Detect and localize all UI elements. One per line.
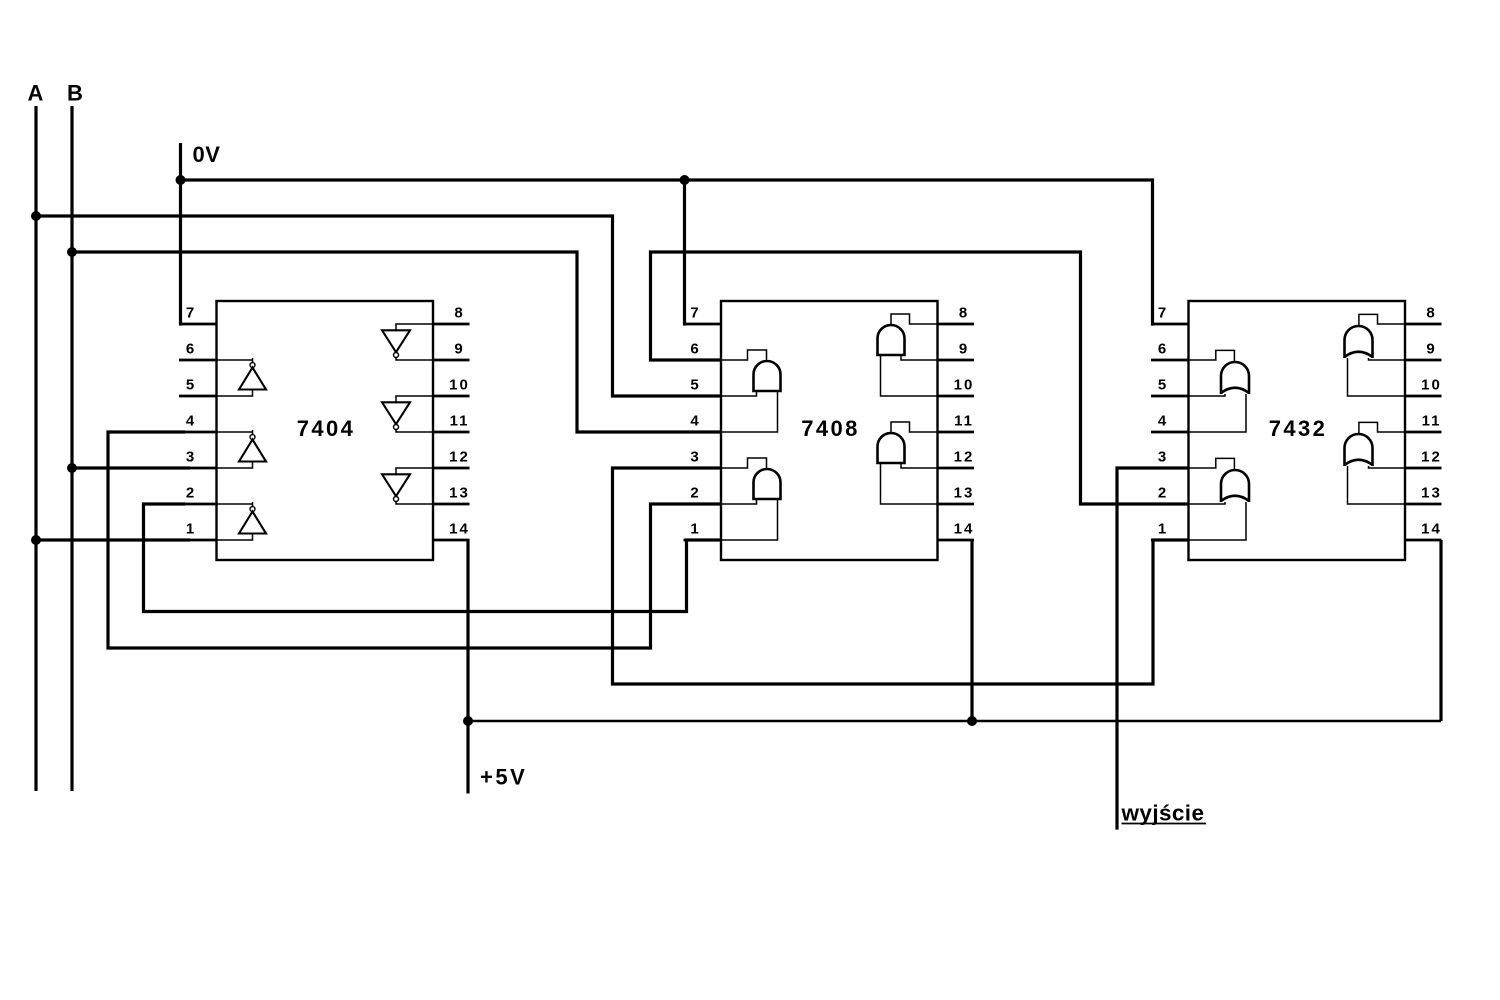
svg-text:10: 10 [449,377,470,394]
svg-text:13: 13 [1421,485,1442,502]
svg-text:13: 13 [954,485,975,502]
svg-text:12: 12 [1421,449,1442,466]
svg-text:B: B [67,81,83,106]
svg-text:7: 7 [1158,305,1168,322]
svg-text:4: 4 [186,413,196,430]
svg-text:12: 12 [449,449,470,466]
svg-text:6: 6 [690,341,700,358]
svg-text:1: 1 [186,521,196,538]
svg-text:2: 2 [690,485,700,502]
svg-text:7: 7 [690,305,700,322]
svg-text:13: 13 [449,485,470,502]
svg-text:12: 12 [954,449,975,466]
svg-text:11: 11 [450,413,470,430]
svg-text:14: 14 [1421,521,1442,538]
svg-text:9: 9 [959,341,969,358]
svg-text:3: 3 [690,449,700,466]
svg-text:1: 1 [1158,521,1168,538]
svg-text:11: 11 [1422,413,1442,430]
svg-text:4: 4 [1158,413,1168,430]
svg-text:7404: 7404 [297,416,356,441]
svg-text:A: A [28,81,44,106]
svg-text:9: 9 [454,341,464,358]
svg-text:3: 3 [1158,449,1168,466]
svg-text:14: 14 [449,521,470,538]
svg-text:6: 6 [1158,341,1168,358]
svg-text:wyjście: wyjście [1121,801,1205,826]
svg-text:11: 11 [954,413,974,430]
svg-text:8: 8 [454,305,464,322]
svg-text:0V: 0V [193,142,221,167]
svg-text:8: 8 [959,305,969,322]
svg-text:7408: 7408 [801,416,860,441]
svg-text:3: 3 [186,449,196,466]
svg-text:10: 10 [1421,377,1442,394]
svg-text:1: 1 [690,521,700,538]
svg-text:5: 5 [186,377,196,394]
svg-text:8: 8 [1426,305,1436,322]
svg-text:10: 10 [954,377,975,394]
svg-text:4: 4 [690,413,700,430]
svg-text:2: 2 [186,485,196,502]
svg-text:5: 5 [690,377,700,394]
svg-text:2: 2 [1158,485,1168,502]
svg-text:7432: 7432 [1269,416,1328,441]
svg-text:9: 9 [1426,341,1436,358]
svg-text:14: 14 [954,521,975,538]
svg-text:5: 5 [1158,377,1168,394]
svg-text:7: 7 [186,305,196,322]
svg-text:+5V: +5V [480,765,527,790]
svg-text:6: 6 [186,341,196,358]
